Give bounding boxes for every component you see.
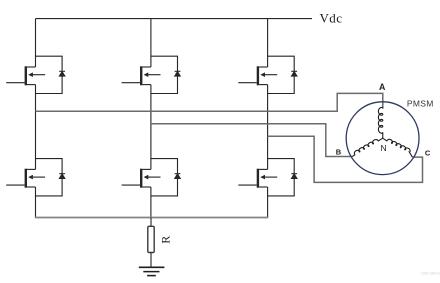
svg-text:R: R (159, 236, 173, 244)
transistor Q6 (238, 159, 294, 196)
wire: leg B source to bottom rail (150, 196, 152, 218)
transistor Q5 (238, 56, 294, 93)
svg-text:N: N (381, 143, 387, 153)
wire: resistor to ground (150, 253, 152, 268)
wire: bottom rail to resistor R (150, 218, 152, 227)
wire: phase C from leg 3 to motor terminal C (268, 136, 423, 182)
svg-text:A: A (379, 82, 386, 92)
diode D4 (anti-parallel) (175, 174, 181, 179)
wire: bottom rail (DC minus bus) (35, 217, 268, 219)
wire: phase B from leg 2 to motor terminal B (151, 124, 353, 157)
wire: leg B drain from Vdc rail (150, 19, 152, 57)
wire: leg B midpoint (phase B node) (150, 94, 152, 159)
resistor R (148, 226, 154, 252)
svg-text:Vdc: Vdc (320, 11, 343, 26)
ground (139, 267, 165, 275)
svg-text:C: C (425, 148, 431, 157)
transistor Q3 (122, 56, 178, 93)
winding phase C (383, 138, 413, 157)
wire: leg C midpoint (phase C node) (267, 94, 269, 159)
winding phase B (352, 138, 382, 156)
svg-text:CSDN @motor-ctrl: CSDN @motor-ctrl (421, 272, 440, 276)
wire: leg C source to bottom rail (267, 196, 269, 218)
wire: leg A drain from Vdc rail (35, 19, 37, 57)
wire: leg C drain from Vdc rail (267, 19, 269, 57)
wire: Vdc top rail (36, 18, 313, 20)
transistor Q2 (6, 159, 62, 196)
diode D6 (anti-parallel) (291, 174, 297, 179)
diode D3 (anti-parallel) (175, 71, 181, 76)
diode D1 (anti-parallel) (59, 71, 65, 76)
wire: leg A midpoint (phase A node) (35, 94, 37, 159)
transistor Q4 (122, 159, 178, 196)
transistor Q1 (6, 56, 62, 93)
motor PMSM stator circle (346, 102, 419, 175)
diode D5 (anti-parallel) (291, 71, 297, 76)
svg-text:B: B (336, 148, 342, 157)
svg-text:PMSM: PMSM (407, 99, 434, 109)
diode D2 (anti-parallel) (59, 174, 65, 179)
winding phase A (378, 107, 382, 138)
wire: phase A from leg 1 to motor terminal A (36, 93, 383, 111)
wire: leg A source to bottom rail (35, 196, 37, 218)
